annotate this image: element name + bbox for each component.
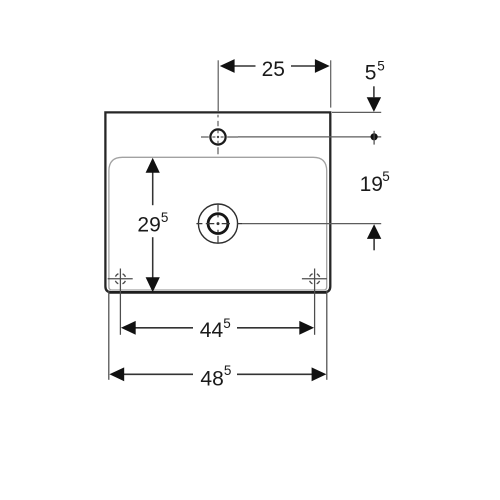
- dimension 25: arrow right: [315, 59, 330, 73]
- drain inner circle: [208, 214, 228, 234]
- faucet hole center dot: [217, 136, 219, 138]
- dimension 44.5: arrow right: [299, 321, 314, 335]
- svg-text:25: 25: [262, 58, 285, 81]
- dimension 44.5: line: [135, 327, 300, 329]
- mounting hole right: [302, 269, 327, 290]
- dimension 5.5: top edge extension line: [332, 111, 381, 113]
- dimension 48.5: extension line left: [108, 291, 110, 380]
- mounting hole left: [108, 269, 133, 290]
- svg-text:5: 5: [224, 363, 232, 378]
- dimension 29.5: line: [152, 170, 154, 279]
- dimension 19.5: leader line: [373, 239, 375, 250]
- svg-text:5: 5: [161, 210, 169, 225]
- faucet centerline extension to right dot: [238, 136, 381, 138]
- inner basin outline: [109, 157, 327, 290]
- dimension 25: extension line right: [330, 60, 332, 107]
- dimension 44.5: arrow left: [121, 321, 136, 335]
- dimension 44.5: extension line right: [314, 290, 316, 335]
- drain vertical centerline: [217, 204, 219, 244]
- dimension 29.5: up arrow: [146, 158, 160, 173]
- drain outer circle: [198, 204, 237, 243]
- dimension 48.5: arrow left: [109, 367, 124, 381]
- svg-text:5: 5: [377, 59, 385, 74]
- dimension 48.5: line: [124, 373, 313, 375]
- svg-text:48: 48: [200, 367, 223, 390]
- svg-text:44: 44: [200, 319, 224, 342]
- dimension 5.5: dot tick: [373, 131, 375, 145]
- svg-text:29: 29: [137, 214, 160, 237]
- washbasin front edge (thicker bottom line): [109, 291, 327, 294]
- svg-text:5: 5: [365, 62, 377, 85]
- svg-text:5: 5: [382, 169, 390, 184]
- drain center dot: [217, 222, 220, 225]
- dimension 48.5: extension line right: [326, 291, 328, 380]
- drain horizontal centerline: [196, 223, 242, 225]
- dimension 25: extension line left: [217, 60, 219, 111]
- washbasin outer outline: [105, 112, 330, 292]
- svg-text:19: 19: [360, 173, 383, 196]
- faucet hole circle: [210, 129, 225, 144]
- dimension 29.5: down arrow: [146, 277, 160, 292]
- dimension 5.5: boundary dot: [371, 133, 378, 140]
- dimension 19.5: up arrow: [367, 224, 381, 239]
- dimension 5.5: leader line: [373, 86, 375, 97]
- dimension 25: arrow left: [220, 59, 235, 73]
- svg-text:5: 5: [223, 316, 231, 331]
- dimension 5.5: down arrow: [367, 97, 381, 112]
- faucet hole horizontal centerline: [201, 136, 238, 138]
- dimension 25: line: [234, 65, 315, 67]
- faucet hole vertical centerline: [217, 115, 219, 155]
- drain centerline extension to right: [242, 223, 381, 225]
- dimension 44.5: extension line left: [119, 290, 121, 335]
- dimension 48.5: arrow right: [312, 367, 327, 381]
